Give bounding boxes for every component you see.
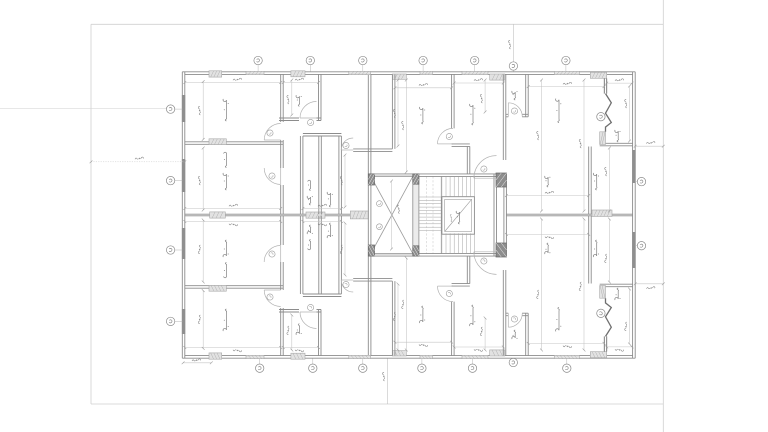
party wall opening box 1 xyxy=(210,212,226,218)
door tag bedroom1 xyxy=(267,130,273,136)
sheet frame border xyxy=(91,24,663,404)
bathroom1 door tag xyxy=(308,119,314,125)
kitchen door tag xyxy=(446,133,452,139)
dim terrace horizontal xyxy=(607,82,632,84)
grid leader left xyxy=(0,108,166,110)
bathroom1 door arc xyxy=(300,102,317,119)
bath3 door arc xyxy=(508,103,522,117)
grid bubble bottom special xyxy=(509,358,517,366)
stair left flight treads xyxy=(419,197,441,231)
hall wall with door xyxy=(353,149,392,152)
elevator shaft xyxy=(442,197,475,235)
lightwell dim text xyxy=(397,205,399,213)
stair flight divider xyxy=(440,176,442,253)
dim master vertical xyxy=(202,148,204,210)
bath3 bottom wall xyxy=(506,114,528,117)
dim duct vertical xyxy=(397,80,399,146)
party wall opening box 2 xyxy=(306,212,325,218)
dim terrace vertical xyxy=(629,86,631,141)
bottom-left small dim xyxy=(183,362,211,364)
party wall between apartments xyxy=(185,214,368,216)
right setback dim bottom xyxy=(635,283,663,285)
dim reception depth vertical xyxy=(541,80,543,211)
lightwell left wall xyxy=(368,74,371,355)
bath3 right wall xyxy=(526,74,529,116)
apartment entry door arc xyxy=(474,156,497,179)
corridor wall W1 xyxy=(281,74,284,214)
label bath2 xyxy=(327,192,333,207)
column lightwell right xyxy=(413,174,419,184)
terrace salon divider xyxy=(600,143,633,146)
top wall window box 3 xyxy=(291,71,305,77)
bedroom divider wall xyxy=(185,142,283,145)
dim living vertical long xyxy=(405,80,407,172)
core top wall xyxy=(371,174,497,177)
terrace hatch box xyxy=(600,132,606,145)
kitchen right wall xyxy=(503,74,506,160)
door tag master xyxy=(269,173,275,179)
window W-L4 xyxy=(182,309,185,334)
window W-L2 xyxy=(182,159,185,192)
dressing left wall xyxy=(300,136,303,214)
label dressing room xyxy=(307,180,313,205)
column lightwell left xyxy=(368,174,374,185)
label reception xyxy=(556,99,562,123)
dim living horizontal xyxy=(395,87,452,89)
dim hall vertical xyxy=(344,155,346,207)
label salon xyxy=(593,173,599,190)
dim party small xyxy=(303,208,342,210)
outer wall top xyxy=(182,72,635,75)
hall door tag xyxy=(343,142,349,148)
label terrace xyxy=(615,130,621,142)
salon left wall xyxy=(589,147,592,215)
lightwell cross X xyxy=(371,176,413,253)
hall right wall xyxy=(467,146,470,174)
left setback dim xyxy=(91,161,185,163)
terrace zigzag break wall xyxy=(604,79,606,94)
grid bubbles right column xyxy=(635,181,637,183)
label bedroom1 noom xyxy=(223,99,229,121)
lightwell tag b xyxy=(377,224,383,230)
grid bubbles bottom row xyxy=(259,358,261,364)
door arc master bedroom xyxy=(264,168,281,185)
stair core right wall xyxy=(494,174,497,256)
bathroom1 bottom wall xyxy=(279,118,321,121)
sheet right edge line xyxy=(662,0,664,432)
dim kitchen horizontal xyxy=(454,82,503,84)
terrace bubble xyxy=(597,113,605,121)
dim dining horizontal xyxy=(506,195,588,197)
window W-L1 xyxy=(182,95,185,122)
label living xyxy=(420,107,426,124)
column core right xyxy=(496,173,507,187)
party wall opening box 4 xyxy=(592,210,612,217)
top wall window box 5 xyxy=(392,74,406,79)
dim reception horizontal xyxy=(528,86,604,88)
hall door arc xyxy=(341,138,353,150)
top wall window box 10 xyxy=(590,72,606,78)
label master bedroom xyxy=(223,152,229,190)
lightwell right wall xyxy=(413,176,419,253)
right setback dim top xyxy=(635,145,663,147)
bedroom divider opening box xyxy=(209,139,226,145)
dim bedroom1 horizontal xyxy=(185,82,281,84)
window W-R2 xyxy=(632,232,635,268)
duct room right wall xyxy=(392,74,395,148)
window W-R1 xyxy=(632,150,635,183)
label bathroom1 xyxy=(296,95,302,106)
dim reception vertical xyxy=(583,80,585,211)
dim salon vertical xyxy=(608,148,610,211)
dressing right wall / bath2 xyxy=(319,136,322,214)
outer wall left xyxy=(182,72,185,358)
outer wall right xyxy=(633,72,636,358)
apartment entry door tag xyxy=(481,166,487,172)
top wall window box 1 xyxy=(209,71,222,77)
living/kitchen wall xyxy=(452,74,455,128)
elevator label xyxy=(456,211,460,224)
bath3 door tag xyxy=(511,108,517,114)
kitchen door arc xyxy=(438,128,454,144)
top wall window hatch 6 xyxy=(420,71,433,74)
top wall window hatch 4 xyxy=(349,71,371,74)
grid bubbles left column xyxy=(175,108,182,110)
stair rail dashed lines xyxy=(426,176,428,253)
top wall window hatch 9 xyxy=(554,71,579,74)
top wall window hatch 7 xyxy=(462,71,488,74)
dressing top wall xyxy=(303,134,342,137)
grid bubble top special with dim xyxy=(512,24,514,72)
top wall window hatch 2 xyxy=(246,71,264,74)
window W-L3 xyxy=(182,228,185,259)
top wall window box 8 xyxy=(490,74,505,80)
dim bedroom1 vertical xyxy=(202,82,204,140)
dim kitchen vertical xyxy=(484,80,486,112)
stair upper flight treads xyxy=(442,176,475,196)
label dining xyxy=(545,176,551,187)
dim bath1 vertical xyxy=(291,80,293,115)
dim bath1 horizontal xyxy=(283,82,318,84)
bottom dim to frame xyxy=(386,358,388,404)
label bath3 xyxy=(512,91,518,100)
label kitchen xyxy=(470,104,476,125)
hall L wall xyxy=(452,144,470,147)
lightwell tag a xyxy=(377,201,383,207)
grid bubbles top row xyxy=(257,65,259,72)
party wall opening box 3 xyxy=(350,211,368,219)
bath2 right wall xyxy=(339,136,342,214)
dim party top xyxy=(185,208,281,210)
door arc bedroom1 xyxy=(264,124,281,141)
bathroom1 right wall xyxy=(319,74,322,120)
